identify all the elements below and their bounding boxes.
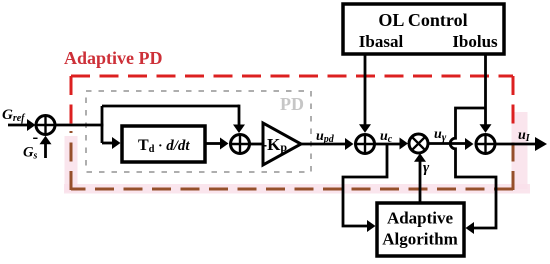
label upd [316, 129, 335, 145]
svg-text:γ: γ [423, 160, 430, 176]
svg-text:Ibasal: Ibasal [359, 32, 404, 51]
gamma wire up into M1 [414, 153, 426, 203]
OL Control box [343, 4, 504, 54]
Adaptive PD dashed box: left border lower (brown) [70, 131, 73, 190]
svg-text:Td · d/dt: Td · d/dt [138, 137, 190, 155]
svg-text:PD: PD [280, 94, 304, 114]
wire S3 to multiplier [375, 138, 409, 150]
wire M1 to S4 with hop [428, 138, 474, 150]
svg-text:OL Control: OL Control [378, 10, 467, 30]
label ugamma [434, 127, 447, 144]
wire S2 to Kp [250, 143, 265, 146]
label Adaptive PD [64, 48, 163, 68]
svg-text:Adaptive: Adaptive [387, 209, 454, 228]
Adaptive PD dashed box: top border (red) [71, 75, 513, 78]
wire Td to S2 [205, 138, 229, 150]
label uc [380, 129, 393, 145]
label Gref [2, 107, 26, 124]
feedback wire Gs [40, 136, 52, 158]
wire S1 to branch node [55, 124, 103, 127]
Adaptive PD dashed box: bottom border (brown) [71, 188, 513, 191]
PD dotted gray box [86, 91, 311, 172]
multiplier M1 [409, 134, 428, 153]
summing junction S1 [36, 116, 55, 135]
Ibolus branch wire to Adaptive Algorithm [450, 108, 496, 234]
Adaptive PD dashed box: right border upper (red) [512, 76, 515, 133]
summing junction S3 [356, 135, 375, 154]
svg-text:Ibolus: Ibolus [452, 32, 498, 51]
summing junction S4 [476, 135, 495, 154]
Ibolus wire down to S4 [480, 54, 492, 133]
pink highlight along lower left dashed border [65, 136, 78, 192]
input wire Gref [8, 119, 36, 131]
pink highlight along bottom dashed border [64, 184, 530, 194]
uc branch wire to Adaptive Algorithm [343, 144, 387, 232]
pink highlight along lower right dashed border [512, 112, 528, 189]
label PD [280, 94, 304, 114]
label Gs [23, 145, 37, 162]
wire into Td block [102, 137, 121, 149]
Ibasal wire down to S3 [359, 54, 371, 133]
bypass wire top [102, 105, 239, 108]
svg-text:Adaptive PD: Adaptive PD [64, 48, 163, 68]
label uI [518, 128, 531, 144]
bypass wire drop into S2 [233, 105, 245, 133]
output wire uI [495, 137, 547, 151]
Adaptive PD dashed box: left border upper (red) [70, 76, 73, 131]
branch node vertical [101, 106, 104, 143]
wire Kp to S3 [301, 138, 354, 150]
Adaptive PD dashed box: right border lower (brown) [512, 133, 515, 190]
minus sign [33, 128, 39, 147]
block Td d/dt [122, 126, 205, 162]
summing junction S2 [231, 135, 250, 154]
Adaptive Algorithm box [377, 203, 464, 256]
svg-text:Algorithm: Algorithm [382, 230, 458, 249]
label gamma [423, 160, 430, 176]
gain Kp triangle [262, 123, 302, 165]
